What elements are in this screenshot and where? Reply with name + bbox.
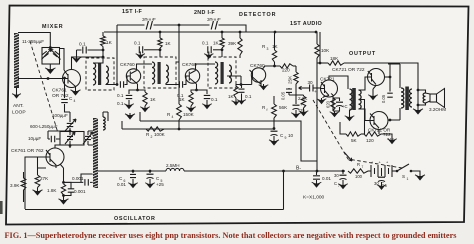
node osc emitter	[62, 181, 65, 184]
capacitor 0.01 (b-)	[316, 171, 318, 182]
capacitor 0.05 (volume)	[288, 88, 290, 95]
svg-text:FIG. 1—Superheterodyne receive: FIG. 1—Superheterodyne receiver uses eig…	[5, 231, 457, 240]
variable capacitor osc tuning	[67, 136, 73, 139]
svg-text:30: 30	[308, 80, 314, 85]
wire q8 collector	[55, 145, 70, 148]
wire tuning cap to ground	[49, 64, 51, 67]
wire T2 tap bus1	[176, 25, 179, 62]
wire det base jog	[241, 76, 252, 85]
wire osc coil small winding	[103, 117, 105, 130]
wire bus2 to 10K	[316, 32, 318, 44]
node bus2-240	[239, 31, 242, 34]
svg-text:1ST I-F: 1ST I-F	[122, 9, 142, 15]
choke 2.5MH	[166, 168, 184, 171]
svg-text:OR 762: OR 762	[52, 93, 69, 99]
node osc emitter bottom	[62, 194, 65, 197]
svg-text:8: 8	[385, 184, 387, 188]
svg-text:600·L250μμF: 600·L250μμF	[30, 124, 58, 129]
capacitor 0.001 (osc emitter)	[64, 182, 72, 195]
wire osc top jog	[65, 106, 71, 112]
resistor 5K	[346, 132, 361, 136]
node b- corner	[282, 170, 285, 173]
svg-text:S: S	[402, 174, 405, 179]
svg-text:0.1: 0.1	[211, 97, 218, 102]
resistor 1K (bus 160)	[158, 38, 162, 48]
transformer T2 core	[158, 62, 161, 84]
wire T4 primary bottom	[349, 110, 351, 115]
svg-text:39K: 39K	[228, 41, 237, 46]
svg-text:ANT.: ANT.	[13, 103, 24, 109]
capacitor C5 +25	[149, 171, 151, 182]
capacitor C4 bypass (q5)	[336, 101, 343, 103]
capacitor C4 100uuF (osc coupling)	[64, 78, 66, 106]
node mixer agc	[102, 49, 105, 52]
wire T3 secondary out	[227, 76, 241, 85]
svg-text:1.8K: 1.8K	[47, 188, 57, 193]
resistor 3.9K	[21, 178, 26, 190]
capacitor 0.05 (collectors)	[387, 93, 393, 97]
transformer T1 secondary winding	[106, 66, 108, 84]
node c7	[342, 170, 345, 173]
svg-text:2.2K: 2.2K	[298, 96, 308, 101]
resistor 620 (q5)	[331, 98, 335, 111]
node osc gang top	[69, 130, 72, 133]
wire agc2 ground stem	[139, 52, 141, 54]
battery B1	[368, 170, 371, 172]
svg-text:10K: 10K	[321, 48, 330, 53]
wire det emitter-ground	[260, 82, 262, 86]
ground (C9)	[273, 139, 275, 142]
wire loop top to tuning cap	[18, 33, 50, 48]
resistor 1K (mixer collector)	[101, 36, 106, 47]
node q2 base cap	[116, 83, 119, 86]
svg-text:1K: 1K	[165, 41, 172, 46]
resistor Rf 56K feedback	[272, 104, 277, 118]
ground (q5 emitter)	[321, 98, 323, 101]
ground (mixer emitter)	[75, 89, 77, 92]
svg-text:3.9K: 3.9K	[10, 183, 20, 188]
svg-text:30: 30	[374, 181, 379, 186]
wire osc coil tap upper	[81, 174, 94, 182]
wire bus1 left drop	[116, 25, 118, 85]
ground (det 1K)	[235, 100, 237, 103]
svg-text:0.1: 0.1	[245, 94, 252, 99]
wire T4 sec top to q6 base	[359, 77, 369, 90]
svg-text:2.5MH: 2.5MH	[166, 163, 180, 168]
svg-text:C: C	[381, 181, 384, 186]
ground (avc cap)	[295, 112, 297, 115]
svg-text:56K: 56K	[279, 105, 288, 110]
ground (q6 emitter)	[372, 94, 374, 97]
resistor 2.2K	[301, 96, 305, 108]
svg-text:100μμF: 100μμF	[52, 113, 68, 118]
svg-text:+: +	[300, 102, 303, 107]
capacitor 0.1 (2nd if base)	[179, 81, 182, 88]
capacitor 10uuF	[48, 138, 60, 140]
node bus2-160	[159, 31, 162, 34]
node r4-129	[178, 128, 181, 131]
svg-text:B-: B-	[296, 166, 301, 172]
resistor 10K	[315, 44, 319, 58]
wire T5 sec loop	[418, 90, 426, 108]
svg-text:CK760: CK760	[182, 62, 197, 68]
svg-text:0.1: 0.1	[202, 41, 209, 46]
svg-text:0.01: 0.01	[322, 176, 331, 181]
capacitor 30uuF 2nd i-f	[210, 21, 219, 30]
wire to q2 base	[125, 76, 131, 85]
node det base	[240, 83, 243, 86]
wire 1K222 down	[221, 48, 223, 57]
node 2nd if agc	[221, 48, 224, 51]
resistor R2 100K	[146, 127, 164, 131]
transistor Q1 mixer CK761	[63, 70, 81, 88]
transformer T2 shield (dashed box)	[144, 57, 176, 88]
wire 1K160 to box	[159, 48, 161, 57]
oscillator coil L2	[93, 118, 98, 188]
ground (27K)	[37, 189, 39, 192]
wire 120 to ground	[381, 134, 392, 138]
svg-text:1: 1	[407, 177, 409, 181]
svg-text:0.001: 0.001	[74, 189, 86, 194]
transformer T3 core	[221, 62, 224, 84]
transistor Q2 1st i-f CK760	[126, 69, 140, 83]
transformer T4 core	[352, 88, 356, 110]
wire mixer collector up	[72, 57, 104, 70]
svg-text:10μμF: 10μμF	[28, 136, 41, 141]
wire q7 collector	[388, 108, 400, 120]
svg-text:7: 7	[362, 165, 364, 169]
capacitor 0.1 (2nd if agc)	[213, 49, 222, 51]
ground (switch)	[419, 174, 421, 177]
resistor 220 (det load)	[280, 64, 293, 68]
transformer T1 core	[98, 63, 101, 85]
transistor Q7 output bottom	[370, 112, 388, 130]
svg-text:1K: 1K	[106, 40, 113, 46]
wire mid bus lower	[122, 121, 274, 129]
wire q2 emitter split	[136, 89, 139, 92]
svg-text:DETECTOR: DETECTOR	[239, 12, 277, 18]
svg-text:4: 4	[74, 99, 76, 103]
transformer T3 secondary winding	[229, 65, 231, 83]
wire loop tap to base	[18, 78, 64, 80]
variable capacitor C1b (rf trimmer)	[53, 51, 59, 57]
svg-text:CK760: CK760	[120, 62, 135, 68]
arrow (ant loop)	[16, 93, 18, 96]
ground (T5 secondary)	[417, 108, 419, 111]
wire q5 collector to xfmr	[329, 76, 348, 89]
capacitor C 0.1 (1st if base)	[120, 81, 123, 88]
wire osc cluster	[48, 112, 93, 148]
node bus2-275	[274, 31, 277, 34]
svg-text:+25: +25	[156, 182, 164, 187]
wire collector rail top	[388, 64, 400, 92]
ground (C6)	[132, 182, 134, 185]
wire T4 sec bottom to q7 base	[359, 109, 371, 121]
wire bus2 1K drop 160	[159, 32, 161, 38]
svg-text:25K: 25K	[288, 75, 293, 84]
svg-text:1K: 1K	[272, 44, 279, 49]
svg-text:220: 220	[282, 68, 290, 73]
variable capacitor C1a (rf tuning)	[42, 51, 48, 57]
wire agc3 ground stem	[208, 52, 210, 54]
wire q2 collector	[137, 64, 153, 71]
svg-text:0.1: 0.1	[134, 41, 141, 46]
resistor R3 1K	[272, 50, 276, 62]
svg-text:0.05: 0.05	[381, 94, 386, 103]
wire ant loop arrow	[16, 88, 18, 94]
svg-text:27K: 27K	[40, 176, 49, 181]
transistor Q8 oscillator CK761	[46, 148, 64, 166]
transistor Q6 output top	[368, 69, 385, 86]
node det collector R3	[273, 65, 276, 68]
transformer T5 output primary	[401, 88, 404, 108]
dashed link volume-switch	[313, 100, 402, 168]
variable capacitor osc padder	[67, 123, 74, 126]
transformer T3 primary winding	[215, 62, 218, 84]
resistor 120	[364, 132, 381, 136]
svg-text:C: C	[334, 181, 337, 186]
svg-text:R: R	[357, 162, 360, 167]
wire bus2 1K drop 222	[221, 32, 223, 38]
capacitor 0.1 (q3 emitter)	[206, 92, 208, 103]
svg-text:1K: 1K	[228, 94, 235, 99]
ground (1.8K)	[63, 198, 65, 201]
wiper arrow (volume)	[299, 87, 306, 89]
svg-text:OSCILLATOR: OSCILLATOR	[114, 216, 156, 222]
node 317-bus	[316, 170, 319, 173]
switch blade on link	[344, 152, 352, 161]
ground (det base filter)	[241, 99, 243, 102]
resistor 1.8K (osc emitter)	[61, 184, 65, 195]
capacitor 30uuF 1st i-f	[145, 21, 154, 30]
svg-text:0.05: 0.05	[281, 91, 286, 100]
transformer T5 secondary	[423, 93, 425, 103]
svg-text:K=X1,000: K=X1,000	[303, 195, 325, 201]
ground (tuning cap)	[49, 67, 51, 70]
resistor 18K	[328, 61, 344, 65]
node 1st if agc	[159, 48, 162, 51]
node mixer collector	[102, 56, 105, 59]
svg-text:3.2OHM: 3.2OHM	[429, 107, 446, 112]
transformer T2 primary winding	[152, 62, 155, 84]
wire top bus (b- feed upper)	[117, 25, 246, 32]
wire q5 bias node	[331, 94, 340, 112]
node 18k left	[319, 62, 322, 65]
volume control 25K	[295, 66, 297, 72]
wire q6 emitter	[373, 86, 376, 95]
svg-text:30: 30	[334, 173, 339, 178]
ground (detector emitter)	[263, 84, 265, 87]
node feedback bottom	[417, 104, 420, 107]
capacitor 0.1 (q2 emitter)	[128, 92, 130, 103]
wire agc cap down-ground	[76, 50, 78, 57]
node bus2-316	[315, 31, 318, 34]
resistor 1K (det base)	[236, 85, 241, 87]
wire q8 emitter	[60, 164, 64, 182]
svg-text:5K: 5K	[351, 138, 358, 143]
svg-text:CK721: CK721	[320, 77, 335, 83]
wire mid bus upper	[140, 112, 317, 161]
svg-text:2: 2	[151, 135, 153, 139]
transformer T5 inner secondary	[410, 89, 413, 107]
wire tuning to base node	[60, 49, 65, 71]
svg-text:CK721 OR 722: CK721 OR 722	[332, 67, 365, 73]
svg-text:18K: 18K	[330, 56, 339, 61]
ground (q2 emitter res)	[144, 106, 146, 109]
node c5	[149, 170, 152, 173]
svg-text:1ST AUDIO: 1ST AUDIO	[290, 21, 322, 27]
wire q3 collector	[196, 64, 216, 71]
wire to q3 base	[184, 76, 190, 85]
capacitor C7 30	[342, 171, 344, 183]
svg-text:25: 25	[300, 108, 305, 113]
ground (2nd if agc)	[208, 53, 210, 56]
capacitor C6 0.01	[132, 171, 134, 182]
ground (2.2K)	[303, 110, 305, 113]
ground (C7)	[342, 183, 344, 186]
wire 220 to volume	[293, 65, 296, 67]
ground (q3 emitter res)	[190, 106, 192, 109]
ground (C5)	[149, 182, 151, 185]
svg-text:OUTPUT: OUTPUT	[349, 51, 376, 57]
resistor 1K (bus 222)	[220, 38, 224, 48]
node feedback top	[417, 89, 420, 92]
transistor Q3 2nd i-f CK760	[185, 69, 199, 83]
svg-text:1K: 1K	[213, 41, 220, 46]
svg-text:10: 10	[288, 133, 294, 138]
capacitor 0.1 (1st if agc)	[144, 49, 160, 51]
node c6	[132, 170, 135, 173]
svg-text:0.1: 0.1	[117, 101, 124, 106]
ground (q2 emitter cap)	[128, 103, 130, 106]
transformer T1 primary winding	[93, 63, 96, 85]
wire q7 emitter	[378, 130, 380, 135]
svg-text:+C: +C	[342, 104, 347, 109]
svg-text:CK761 OR 762: CK761 OR 762	[11, 148, 44, 154]
switch S1	[396, 170, 399, 173]
transformer T1 shield (dashed box)	[86, 58, 114, 90]
transistor Q4 detector CK760	[251, 68, 265, 82]
ground (1st if agc)	[139, 53, 141, 56]
transformer T5 core	[405, 87, 409, 111]
capacitor 0.1 (mixer agc)	[77, 49, 104, 51]
wire 1.8K to ground	[63, 196, 65, 199]
svg-text:11-355μμF: 11-355μμF	[22, 39, 44, 44]
svg-text:620: 620	[326, 100, 331, 108]
svg-text:0.01: 0.01	[117, 182, 126, 187]
node loop tap	[47, 77, 50, 80]
ground (T4 primary)	[349, 115, 351, 118]
svg-text:4: 4	[172, 115, 174, 119]
resistor 39K (bus 240)	[238, 38, 242, 55]
wire q6 collector	[385, 76, 391, 78]
wire b- return	[25, 171, 284, 210]
wire det collector	[262, 66, 280, 70]
wire q8 base left	[25, 157, 46, 209]
node bus2-222	[221, 31, 224, 34]
svg-text:LOOP: LOOP	[12, 110, 26, 116]
ground (mixer agc cap)	[76, 57, 78, 60]
svg-text:150K: 150K	[183, 112, 195, 117]
speaker LS1	[430, 94, 437, 102]
capacitor C9 10 (decoupling)	[271, 130, 278, 132]
svg-text:3: 3	[267, 47, 269, 51]
wire osc winding top	[103, 112, 108, 121]
dashed gang line tuning	[30, 41, 58, 133]
svg-text:1K: 1K	[179, 97, 186, 102]
svg-text:0.1: 0.1	[117, 93, 124, 98]
wire T2 secondary out	[166, 83, 179, 85]
wire wiper to cap	[306, 87, 310, 89]
variable capacitor osc trimmer	[85, 136, 91, 139]
ground (C8)	[381, 184, 383, 187]
ground (620/C4)	[334, 111, 336, 114]
box (osc tuning gang)	[60, 132, 84, 146]
wire 10K down	[316, 58, 318, 171]
svg-text:0.001: 0.001	[72, 176, 84, 181]
antenna loop coil L1	[14, 33, 19, 88]
wire 18K to feedback	[344, 63, 418, 90]
svg-text:0.1: 0.1	[79, 42, 86, 48]
resistor 1K (q2 emitter)	[143, 92, 147, 106]
wire 5K left	[340, 122, 346, 134]
wire bus2 vertical 320	[319, 32, 321, 63]
ground (q3 emitter cap)	[206, 103, 208, 106]
box (rf tuning gang)	[42, 48, 60, 65]
wire 27K top	[38, 157, 47, 168]
resistor 27K	[35, 175, 40, 188]
capacitor C8 30	[381, 174, 383, 176]
node 56k-128	[273, 127, 276, 130]
node osc gang bottom	[69, 144, 72, 147]
wire T4 sec center tap	[359, 100, 365, 135]
transformer T4 secondary	[359, 90, 362, 109]
wire T1 secondary out	[106, 83, 117, 86]
svg-text:9: 9	[285, 136, 287, 140]
wire q3 emitter split	[195, 89, 198, 92]
svg-text:2ND I-F: 2ND I-F	[194, 10, 215, 16]
resistor R7 100	[348, 169, 368, 173]
svg-text:120: 120	[366, 138, 374, 143]
capacitor 0.001 (osc fb)	[64, 181, 95, 183]
node mixer cap junction	[49, 46, 52, 49]
svg-text:f: f	[267, 108, 268, 112]
svg-text:100: 100	[355, 174, 363, 179]
ground (mid filter)	[129, 113, 131, 116]
transformer T4 driver primary	[350, 89, 353, 110]
transformer T2 secondary winding	[166, 65, 168, 83]
wire vol bottom node	[289, 95, 304, 104]
node bus1-179	[178, 24, 181, 27]
transformer T3 shield (dashed box)	[208, 57, 236, 88]
svg-text:1K: 1K	[150, 97, 157, 102]
resistor 1K (q3 emitter)	[189, 92, 193, 106]
wire q5 emitter	[323, 96, 329, 99]
transistor Q5 1st audio CK721	[321, 80, 338, 97]
capacitor +25 (avc)	[293, 104, 300, 106]
svg-text:MIXER: MIXER	[42, 24, 64, 30]
wire bottom b- bus	[98, 170, 345, 172]
capacitor 0.1 det base filter	[241, 85, 243, 89]
svg-text:100K: 100K	[154, 132, 166, 137]
capacitor 30 coupling (1st audio)	[313, 87, 320, 89]
wire second bus	[104, 31, 317, 33]
resistor R4 150K	[177, 104, 182, 120]
ground (0.01 b-)	[316, 182, 318, 185]
wire T1 primary top	[93, 57, 103, 63]
ground (output emitters)	[391, 138, 393, 141]
